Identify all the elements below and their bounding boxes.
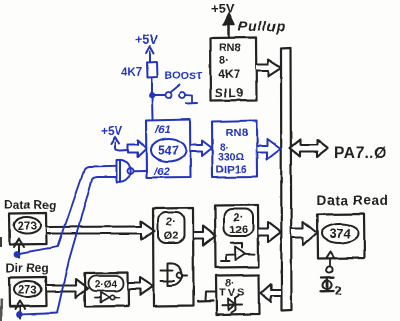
ground (tvs) xyxy=(198,292,216,302)
svg-text:2·: 2· xyxy=(166,216,176,228)
svg-text:+5V: +5V xyxy=(211,1,235,16)
label PA7..0 xyxy=(334,145,387,162)
svg-text:374: 374 xyxy=(330,227,351,241)
svg-text:SIL9: SIL9 xyxy=(215,86,244,100)
wire dir-reg to nand input B xyxy=(19,177,117,315)
svg-text:126: 126 xyxy=(229,224,247,236)
buffer U 547 (blue box) xyxy=(146,120,191,179)
node +5V (black, top pullup supply) xyxy=(211,1,235,37)
clock phase phi-2 xyxy=(321,277,342,297)
gate block 2x02 xyxy=(153,208,194,307)
inverter 2x04 box xyxy=(85,273,129,307)
tristate buffer symbol in 2x126 xyxy=(221,243,255,261)
svg-text:/62: /62 xyxy=(153,166,169,178)
tvs diode symbol xyxy=(222,296,242,313)
svg-text:RN8: RN8 xyxy=(219,42,241,54)
resistor network RN8 330ohm DIP16 (blue box) xyxy=(212,121,258,178)
wire data-reg to nand input A xyxy=(17,166,117,254)
arrow +5V into 547 xyxy=(128,140,147,157)
node +5V (blue, left of 547) xyxy=(101,124,128,151)
wire resistor to junction xyxy=(151,78,153,95)
arrow 2x02 to 2x126 xyxy=(194,226,217,246)
scan smudge left edge xyxy=(0,237,3,321)
protection 8xTVS box xyxy=(216,275,260,315)
svg-text:8·: 8· xyxy=(219,55,229,67)
svg-text:/61: /61 xyxy=(154,124,170,136)
svg-text:Ø2: Ø2 xyxy=(164,230,179,242)
arrow 547 to RN8-DIP16 xyxy=(191,141,213,157)
svg-text:Dir Reg: Dir Reg xyxy=(6,261,49,275)
svg-text:Pullup: Pullup xyxy=(238,18,286,34)
node dot dir-reg tap xyxy=(16,311,23,318)
svg-text:273: 273 xyxy=(18,285,37,297)
label Pullup xyxy=(238,18,286,34)
node dot data-reg tap xyxy=(14,251,21,258)
arrow RN8-DIP16 to bus xyxy=(258,139,281,160)
label Data Read xyxy=(317,193,388,208)
svg-text:2: 2 xyxy=(335,284,342,298)
resistor network RN8 4K7 SIL9 xyxy=(210,38,257,101)
arrow data 273 to 2x02 xyxy=(47,221,155,240)
svg-text:+5V: +5V xyxy=(101,124,123,138)
label Data Reg xyxy=(4,198,56,212)
svg-text:Data Read: Data Read xyxy=(317,193,388,208)
inverter symbol in 2x04 xyxy=(95,293,119,303)
buffer 2x126 box xyxy=(215,205,259,268)
register 273 (data) xyxy=(9,213,47,245)
svg-text:TVS: TVS xyxy=(219,287,246,299)
svg-text:Data Reg: Data Reg xyxy=(4,198,56,212)
arrow input to data 273 xyxy=(14,239,24,257)
svg-text:2·Ø4: 2·Ø4 xyxy=(95,280,118,291)
arrow bus to 374 xyxy=(292,222,318,246)
svg-text:PA7..Ø: PA7..Ø xyxy=(334,145,387,162)
nand symbol in 2x02 xyxy=(161,263,188,285)
svg-text:RN8: RN8 xyxy=(226,127,248,139)
svg-text:273: 273 xyxy=(17,221,36,233)
arrow 2x126 to bus xyxy=(259,222,282,242)
svg-text:DIP16: DIP16 xyxy=(216,164,247,176)
clock input 374 xyxy=(326,252,335,273)
wire junction to 547 xyxy=(151,97,154,119)
arrow 2x04 to 2x02 xyxy=(129,278,154,296)
switch BOOST xyxy=(155,85,197,104)
register 273 (dir) xyxy=(9,277,47,307)
label Dir Reg xyxy=(6,261,49,275)
svg-text:BOOST: BOOST xyxy=(165,70,203,82)
svg-text:4K7: 4K7 xyxy=(218,67,240,81)
register 374 xyxy=(317,214,365,259)
arrow bus to tvs xyxy=(261,284,281,302)
node junction dot xyxy=(149,92,156,99)
nand gate (blue) xyxy=(117,160,146,182)
svg-text:547: 547 xyxy=(158,144,179,158)
svg-text:4K7: 4K7 xyxy=(121,67,142,79)
label BOOST xyxy=(165,70,203,82)
svg-text:330Ω: 330Ω xyxy=(218,151,244,163)
bus bar PA xyxy=(281,48,292,311)
svg-text:2·: 2· xyxy=(234,212,244,224)
arrow RN8-SIL9 to bus xyxy=(256,60,281,77)
resistor 4K7 (blue) xyxy=(121,62,158,79)
arrow dir 273 to 2x04 xyxy=(47,280,89,298)
svg-text:+5V: +5V xyxy=(135,33,158,47)
node +5V (blue, boost supply) xyxy=(135,33,158,62)
bidirectional arrow PA7..0 xyxy=(290,140,329,157)
arrow input to dir 273 xyxy=(15,301,25,318)
